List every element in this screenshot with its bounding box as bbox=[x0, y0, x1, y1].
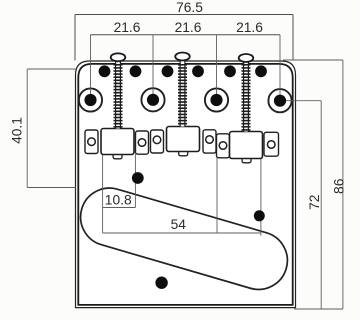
svg-text:76.5: 76.5 bbox=[176, 0, 203, 15]
svg-text:40.1: 40.1 bbox=[10, 117, 25, 144]
svg-text:86: 86 bbox=[332, 178, 347, 194]
svg-text:72: 72 bbox=[307, 195, 322, 210]
svg-text:21.6: 21.6 bbox=[114, 20, 141, 35]
svg-text:10.8: 10.8 bbox=[105, 192, 132, 207]
svg-text:21.6: 21.6 bbox=[236, 20, 263, 35]
svg-text:21.6: 21.6 bbox=[175, 20, 202, 35]
svg-text:54: 54 bbox=[171, 217, 187, 232]
